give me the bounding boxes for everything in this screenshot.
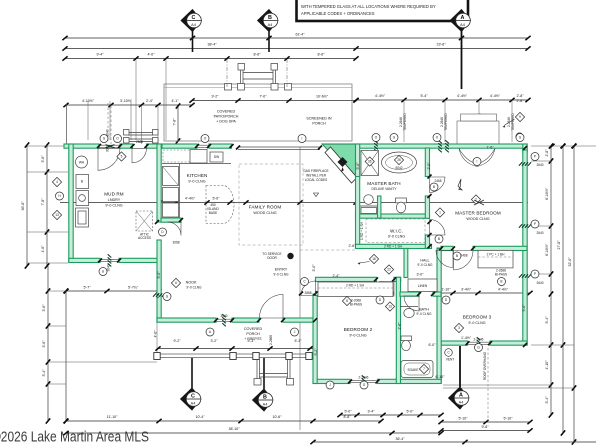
left exterior wall <box>69 144 73 263</box>
ref X symbol <box>474 200 484 205</box>
kitchen/nook west wall <box>157 144 161 222</box>
svg-text:SCREENED IN: SCREENED IN <box>306 117 332 121</box>
svg-text:9'-0 CLNG: 9'-0 CLNG <box>418 263 433 267</box>
svg-text:B: B <box>268 15 272 21</box>
svg-text:9'-4": 9'-4" <box>96 53 104 57</box>
dim line level4 top mid <box>192 100 356 102</box>
svg-text:C: C <box>191 393 195 399</box>
door arc porch entry <box>260 295 284 319</box>
right vertical dims <box>550 146 552 415</box>
patio screen edge lines <box>238 146 320 148</box>
svg-text:B: B <box>263 394 267 400</box>
svg-text:FAMILY ROOM: FAMILY ROOM <box>249 205 282 210</box>
svg-text:5'-3": 5'-3" <box>247 339 255 343</box>
svg-text:BI-PASS: BI-PASS <box>495 273 507 277</box>
svg-text:1'-10": 1'-10" <box>441 288 451 292</box>
door arc kitchen-nook <box>168 222 182 236</box>
svg-text:TEMPERED: TEMPERED <box>444 112 448 130</box>
svg-text:3'-4": 3'-4" <box>367 410 375 414</box>
svg-text:9'-0 CLNG: 9'-0 CLNG <box>187 286 202 290</box>
svg-text:3: 3 <box>458 326 460 330</box>
svg-text:10'-6½": 10'-6½" <box>316 95 329 99</box>
svg-text:MASTER BATH: MASTER BATH <box>367 181 400 186</box>
svg-text:9'-0 CLNG: 9'-0 CLNG <box>274 273 289 277</box>
svg-text:LINEN: LINEN <box>418 284 428 288</box>
svg-text:10'-4": 10'-4" <box>195 415 205 419</box>
svg-text:13: 13 <box>388 305 392 309</box>
svg-text:A4: A4 <box>268 23 273 27</box>
windows hatches top right wall <box>374 140 378 152</box>
kitchen south stub <box>161 218 181 222</box>
extension lines right <box>531 145 596 147</box>
svg-text:11'-10": 11'-10" <box>107 415 118 419</box>
svg-text:2 PC + 1 BH: 2 PC + 1 BH <box>487 253 506 257</box>
svg-text:DW: DW <box>214 155 219 159</box>
keynote circles <box>100 135 108 143</box>
svg-text:4'-4½": 4'-4½" <box>375 94 386 98</box>
svg-text:BI-PASS: BI-PASS <box>350 303 362 307</box>
svg-text:4'-6": 4'-6" <box>41 245 45 253</box>
svg-text:2640: 2640 <box>536 231 543 235</box>
bedroom3 interior dim y293 <box>435 292 530 294</box>
svg-text:4'-10": 4'-10" <box>545 360 549 370</box>
grid marker B bottom <box>263 358 265 389</box>
svg-text:PATIO/PORCH: PATIO/PORCH <box>214 115 239 119</box>
svg-text:3'-4": 3'-4" <box>42 369 46 377</box>
svg-text:32'-0": 32'-0" <box>568 257 572 267</box>
bed2 north wall <box>316 277 377 281</box>
svg-text:4'-4½": 4'-4½" <box>490 94 501 98</box>
hall south wall piece <box>316 292 320 296</box>
svg-text:5'-0": 5'-0" <box>522 304 526 312</box>
svg-text:C: C <box>192 15 196 21</box>
svg-text:9'-0 CLNG: 9'-0 CLNG <box>188 180 205 184</box>
svg-text:A: A <box>461 15 465 21</box>
dim line 38-4 / 23-6 <box>65 48 528 50</box>
svg-text:7: 7 <box>423 367 425 371</box>
family room tray dashed <box>239 164 303 245</box>
MB east wall (bath side) <box>425 148 429 177</box>
svg-text:WH: WH <box>79 160 85 164</box>
svg-text:4'-0": 4'-0" <box>154 330 158 338</box>
svg-text:8: 8 <box>346 299 348 303</box>
svg-text:2-2646: 2-2646 <box>359 376 369 380</box>
svg-text:9'-0 CLNG: 9'-0 CLNG <box>468 321 485 325</box>
door arc WIC <box>430 220 446 236</box>
svg-text:36: 36 <box>368 160 372 164</box>
svg-text:38'-4": 38'-4" <box>207 43 217 47</box>
hall east wall upper <box>437 248 441 250</box>
svg-text:A4: A4 <box>460 23 465 27</box>
svg-text:A4: A4 <box>459 400 464 404</box>
island <box>206 186 234 224</box>
svg-text:P: P <box>534 272 536 276</box>
svg-text:4'-4½": 4'-4½" <box>498 288 509 292</box>
door arc bath <box>404 296 419 311</box>
svg-text:6'-0": 6'-0" <box>428 343 436 347</box>
patio left dashed <box>107 103 109 141</box>
svg-text:3'-6": 3'-6" <box>42 304 46 312</box>
mud rm fixtures <box>76 156 88 168</box>
door arc hall/entry <box>301 281 316 296</box>
svg-text:LOCAL CODES: LOCAL CODES <box>305 178 328 182</box>
svg-text:2640: 2640 <box>536 281 543 285</box>
svg-text:5'-0": 5'-0" <box>406 410 414 414</box>
center reference dim line y202 <box>60 202 528 204</box>
svg-text:A4: A4 <box>191 23 196 27</box>
svg-text:4'-0": 4'-0" <box>147 53 155 57</box>
window top wall w1 <box>99 144 120 146</box>
svg-text:4'-4½": 4'-4½" <box>185 197 196 201</box>
nook south wall <box>157 318 161 322</box>
svg-text:9'-0 CLNG: 9'-0 CLNG <box>349 334 366 338</box>
svg-text:ENTRY: ENTRY <box>275 268 288 272</box>
svg-text:3'-6": 3'-6" <box>41 155 45 163</box>
door arc master bath <box>430 177 446 193</box>
svg-text:2-2668: 2-2668 <box>269 335 273 345</box>
svg-text:P: P <box>534 222 536 226</box>
top wall east of fireplace <box>355 144 527 148</box>
svg-text:6: 6 <box>175 281 177 285</box>
extension lines left <box>27 145 68 147</box>
bath east / bed3 west wall <box>437 248 441 383</box>
master vanity <box>360 205 378 207</box>
svg-text:A4: A4 <box>191 401 196 405</box>
note box <box>297 0 469 21</box>
bottom dim lines <box>66 420 381 422</box>
svg-text:PORCH: PORCH <box>312 122 326 126</box>
mud stoop verticals <box>110 106 112 144</box>
svg-text:P: P <box>534 155 536 159</box>
dim line level4 top left <box>66 104 192 106</box>
porch depth dim <box>177 106 179 141</box>
svg-text:9'-2": 9'-2" <box>173 339 181 343</box>
svg-text:COVERED: COVERED <box>244 327 263 331</box>
conc pad dashed <box>487 348 489 421</box>
right top corner block <box>523 144 527 152</box>
svg-text:5'-0": 5'-0" <box>157 271 161 279</box>
svg-text:BATH: BATH <box>419 308 429 312</box>
svg-text:7'-0": 7'-0" <box>259 95 267 99</box>
nook west window hatch <box>153 293 165 297</box>
fan arrow <box>458 179 462 190</box>
bed2 west wall <box>313 294 317 384</box>
MB closet <box>478 250 513 268</box>
left lower vertical dims <box>47 266 49 421</box>
svg-text:4'-1": 4'-1" <box>171 99 179 103</box>
svg-text:B: B <box>438 237 440 241</box>
mud rm south wall <box>69 258 100 262</box>
svg-text:GAS FIREPLACE: GAS FIREPLACE <box>303 169 328 173</box>
porch posts <box>154 353 312 360</box>
svg-text:7'-8": 7'-8" <box>41 198 45 206</box>
svg-text:6'-10": 6'-10" <box>435 375 445 379</box>
svg-text:4: 4 <box>56 180 58 184</box>
mud door stoop rails <box>124 130 159 144</box>
svg-text:2'-6": 2'-6" <box>348 244 356 248</box>
svg-text:2 RD + 1 SH: 2 RD + 1 SH <box>384 245 403 249</box>
svg-text:9'-0 CLNG: 9'-0 CLNG <box>417 312 432 316</box>
svg-text:NOOK: NOOK <box>186 281 197 285</box>
svg-text:38'-10": 38'-10" <box>228 427 240 431</box>
svg-text:2 RD + 1 SH: 2 RD + 1 SH <box>346 284 365 288</box>
svg-text:5'-0": 5'-0" <box>356 162 360 170</box>
svg-text:22: 22 <box>387 268 391 272</box>
bottom stairs <box>254 360 294 386</box>
svg-text:+ DOG SPA: + DOG SPA <box>216 120 236 124</box>
door arc bed2 <box>379 282 394 297</box>
right exterior wall <box>523 150 527 345</box>
svg-text:6'-10½": 6'-10½" <box>545 187 549 200</box>
attic access dashed box <box>136 211 153 231</box>
svg-text:5'-0": 5'-0" <box>344 410 352 414</box>
entry service blob <box>287 253 293 259</box>
master tub <box>382 152 417 173</box>
stair centerlines <box>226 59 228 87</box>
svg-text:ACCESS: ACCESS <box>138 236 151 240</box>
svg-text:1: 1 <box>439 211 441 215</box>
svg-text:APPLICABLE CODES + ORDINANCES: APPLICABLE CODES + ORDINANCES <box>301 11 375 16</box>
svg-text:36'-4": 36'-4" <box>395 437 405 441</box>
svg-text:8'-6": 8'-6" <box>253 53 261 57</box>
svg-text:WITH TEMPERED GLASS AT ALL LOC: WITH TEMPERED GLASS AT ALL LOCATIONS WHE… <box>301 4 436 9</box>
svg-text:DELUXE VANITY: DELUXE VANITY <box>372 187 398 191</box>
svg-text:9'-8": 9'-8" <box>481 425 489 429</box>
svg-text:PORCH: PORCH <box>246 332 260 336</box>
svg-text:B: B <box>433 185 435 189</box>
svg-text:6042: 6042 <box>395 166 402 170</box>
svg-text:B: B <box>456 254 458 258</box>
svg-text:9'-2": 9'-2" <box>211 95 219 99</box>
dim line overall top 61-4 <box>65 37 528 39</box>
svg-text:9'-0 CLNG: 9'-0 CLNG <box>105 204 122 208</box>
WIC north wall <box>356 214 430 218</box>
svg-text:3'-6": 3'-6" <box>42 340 46 348</box>
svg-text:WOOD CLNG: WOOD CLNG <box>253 211 276 215</box>
svg-text:5'-4": 5'-4" <box>545 316 549 324</box>
svg-text:3'-0": 3'-0" <box>312 264 316 272</box>
kitchen counters <box>162 163 231 165</box>
svg-text:9: 9 <box>519 115 521 119</box>
svg-text:2'-4": 2'-4" <box>146 99 154 103</box>
door arc master bedroom <box>454 250 474 270</box>
extension lines top <box>87 101 89 140</box>
door arc mudrm left top <box>98 148 120 170</box>
svg-text:5'-10": 5'-10" <box>503 417 513 421</box>
dim line level4 top right <box>356 99 528 101</box>
svg-text:B: B <box>81 180 83 184</box>
svg-text:61'-4": 61'-4" <box>295 33 305 37</box>
svg-text:©2026 Lake Martin Area MLS: ©2026 Lake Martin Area MLS <box>0 429 149 446</box>
grid marker A bottom <box>459 346 461 387</box>
svg-text:ROOF OVERHANG: ROOF OVERHANG <box>483 351 487 380</box>
svg-text:2'-8": 2'-8" <box>516 99 524 103</box>
svg-text:3'-0": 3'-0" <box>416 273 424 277</box>
svg-text:MUD RM: MUD RM <box>104 192 124 197</box>
linen <box>408 279 437 292</box>
svg-text:2'-0": 2'-0" <box>427 162 431 170</box>
MB bay curtain arcs <box>459 149 495 167</box>
door arc bed3 <box>436 250 453 267</box>
svg-text:VENT: VENT <box>446 358 455 362</box>
svg-text:5'-4": 5'-4" <box>420 94 428 98</box>
svg-text:5: 5 <box>121 155 123 159</box>
svg-text:27'-8": 27'-8" <box>557 240 561 250</box>
svg-text:3'-4": 3'-4" <box>545 396 549 404</box>
svg-text:3068: 3068 <box>172 241 179 245</box>
svg-text:36'-8": 36'-8" <box>21 201 25 211</box>
svg-text:6'-10½": 6'-10½" <box>545 243 549 256</box>
grid marker A top <box>461 31 463 89</box>
svg-text:B: B <box>500 280 502 284</box>
bedroom3 south wall <box>441 341 468 345</box>
keynote diamonds <box>52 177 61 186</box>
svg-text:INSTALL PER: INSTALL PER <box>306 174 327 178</box>
svg-text:5'-7¾": 5'-7¾" <box>128 286 139 290</box>
svg-text:HALL: HALL <box>420 259 429 263</box>
svg-text:8'-8": 8'-8" <box>343 415 351 419</box>
WIC shelves <box>366 219 425 243</box>
WIC west / MB west wall <box>356 177 360 249</box>
svg-text:KITCHEN: KITCHEN <box>187 173 208 178</box>
svg-text:A4: A4 <box>263 402 268 406</box>
bath north wall <box>400 292 419 296</box>
bed2 south + bath south wall <box>313 379 350 383</box>
svg-text:A: A <box>459 392 463 398</box>
svg-text:23'-6": 23'-6" <box>436 43 446 47</box>
svg-text:3'-2": 3'-2" <box>210 339 218 343</box>
svg-text:2868: 2868 <box>136 140 143 144</box>
bed2 closet <box>318 282 393 297</box>
svg-text:2868: 2868 <box>304 291 311 295</box>
grid marker C top <box>192 31 194 52</box>
svg-text:1'-4½": 1'-4½" <box>461 336 472 340</box>
svg-text:2'-4": 2'-4" <box>332 274 340 278</box>
svg-text:13: 13 <box>55 213 59 217</box>
svg-text:1'-6": 1'-6" <box>486 146 494 150</box>
svg-text:MASTER BEDROOM: MASTER BEDROOM <box>455 211 501 216</box>
svg-text:COVERED: COVERED <box>217 110 236 114</box>
bath2 fixtures <box>404 308 414 317</box>
horizontal dim y291 left <box>66 290 159 292</box>
grid marker C bottom <box>191 358 193 388</box>
grid marker B top <box>268 31 270 52</box>
covered patio slab outline <box>164 84 352 141</box>
left vertical dims <box>26 145 28 266</box>
svg-text:3'-4½": 3'-4½" <box>461 288 472 292</box>
vent circle <box>445 349 453 357</box>
svg-text:2468: 2468 <box>434 179 441 183</box>
svg-text:3040: 3040 <box>220 314 227 318</box>
svg-text:2'-8": 2'-8" <box>397 322 401 330</box>
svg-text:SOAKE: SOAKE <box>408 368 419 372</box>
svg-text:TEMPERED: TEMPERED <box>403 112 407 130</box>
svg-text:4'-4½": 4'-4½" <box>457 94 468 98</box>
door arc mud top <box>132 148 147 163</box>
master toilet <box>396 198 407 203</box>
svg-text:5'-10": 5'-10" <box>458 417 468 421</box>
svg-text:10'-6": 10'-6" <box>272 415 282 419</box>
dim line level3 top left <box>65 58 356 60</box>
svg-text:5'-0": 5'-0" <box>212 197 220 201</box>
svg-text:5'-7": 5'-7" <box>83 286 91 290</box>
svg-text:BEDROOM 2: BEDROOM 2 <box>344 327 373 332</box>
hall west wall <box>404 249 408 278</box>
svg-text:7'-8": 7'-8" <box>173 118 177 126</box>
svg-text:2468: 2468 <box>460 254 467 258</box>
svg-text:W.I.C.: W.I.C. <box>390 229 403 234</box>
fireplace <box>322 144 359 184</box>
master bedroom bay bump <box>457 121 499 145</box>
top wall west segments <box>64 144 99 148</box>
svg-text:2'-8": 2'-8" <box>545 149 549 157</box>
svg-text:DOOR: DOOR <box>267 256 277 260</box>
svg-text:9'-2": 9'-2" <box>314 348 318 356</box>
svg-text:WOOD CLNG: WOOD CLNG <box>466 217 489 221</box>
svg-text:1 RD + 1 SH: 1 RD + 1 SH <box>360 221 364 240</box>
top stair rails <box>225 64 292 91</box>
WIC east wall <box>425 235 429 248</box>
svg-text:I: I <box>477 160 478 164</box>
svg-text:2640: 2640 <box>536 163 543 167</box>
svg-text:BASE: BASE <box>209 211 218 215</box>
bed2/bath wall <box>396 277 400 383</box>
section line vertical x300 <box>299 147 301 430</box>
svg-text:9'-0 CLNG: 9'-0 CLNG <box>388 235 405 239</box>
master bath divider <box>378 196 381 218</box>
master bath shower <box>361 151 379 176</box>
WIC south / MB south wall <box>356 244 432 248</box>
svg-text:2'-8": 2'-8" <box>516 94 524 98</box>
svg-text:2-2646: 2-2646 <box>474 338 484 342</box>
svg-text:8'-6": 8'-6" <box>317 53 325 57</box>
svg-text:BEDROOM 3: BEDROOM 3 <box>463 315 492 320</box>
svg-text:4'-10½": 4'-10½" <box>82 99 95 103</box>
master suite west wall upper <box>356 144 360 178</box>
svg-text:4-0: 4-0 <box>156 293 160 298</box>
svg-text:26: 26 <box>397 158 401 162</box>
svg-text:LNDRY: LNDRY <box>108 198 121 202</box>
svg-text:I: I <box>302 137 303 141</box>
svg-text:TEMPERED: TEMPERED <box>511 112 515 130</box>
svg-text:5'-3": 5'-3" <box>294 339 302 343</box>
svg-text:16: 16 <box>372 257 376 261</box>
bottom porch slab edge <box>157 353 313 355</box>
